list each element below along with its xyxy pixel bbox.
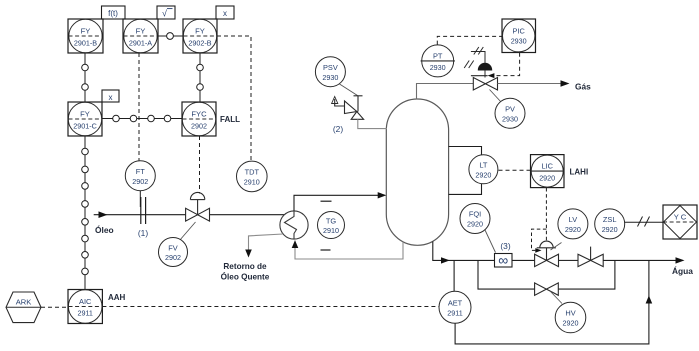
wire dashed PT to PIC xyxy=(437,36,502,44)
svg-text:PT: PT xyxy=(433,52,443,61)
wire FT2902 to orifice xyxy=(139,191,141,207)
tag line FQI xyxy=(485,230,496,253)
tag line PV xyxy=(490,90,502,103)
wire FY2901-A to FY2902-B with junction xyxy=(158,33,183,40)
water line from vessel xyxy=(433,242,495,261)
wire dashed LT to LIC xyxy=(499,169,531,171)
control valve LV 2920 xyxy=(535,241,559,267)
instrument FY 2901-C xyxy=(68,102,102,136)
flow arrow return down xyxy=(245,250,252,258)
svg-text:FY: FY xyxy=(195,27,205,36)
svg-text:PIC: PIC xyxy=(513,27,526,36)
instrument PIC 2930 xyxy=(502,19,536,53)
svg-text:LIC: LIC xyxy=(541,162,553,171)
wire dashed FYC2902 to FV2902 valve xyxy=(199,136,201,194)
svg-text:2902: 2902 xyxy=(165,253,181,262)
instrument HV 2920 xyxy=(555,302,586,333)
wire dashed FY2902-B to TDT2910 xyxy=(217,36,251,161)
pipe vessel bottoms to exchanger (gray) xyxy=(295,241,403,260)
svg-text:FQI: FQI xyxy=(469,210,481,219)
svg-text:x: x xyxy=(223,9,227,18)
instrument FY 2901-A xyxy=(123,19,158,53)
svg-text:√: √ xyxy=(162,9,167,19)
svg-text:2902-B: 2902-B xyxy=(188,39,211,48)
svg-text:PSV: PSV xyxy=(323,63,338,72)
wire data-link FY2902-B to FYC2902 xyxy=(197,53,204,102)
hot oil return line xyxy=(249,234,284,251)
instrument FV 2902 xyxy=(159,238,188,267)
pneumatic slashes lower xyxy=(464,61,474,69)
svg-text:ZSL: ZSL xyxy=(603,215,617,224)
svg-text:FY: FY xyxy=(81,27,91,36)
relief valve PSV xyxy=(335,96,364,120)
svg-text:2911: 2911 xyxy=(77,309,92,318)
svg-text:(1): (1) xyxy=(138,228,148,238)
arrow PIC signal xyxy=(488,73,495,78)
flow element (3) box xyxy=(495,252,513,268)
wire dashed ARK to AIC xyxy=(41,306,68,308)
tag line FV2902 xyxy=(180,222,196,241)
svg-text:FALL: FALL xyxy=(220,115,240,124)
svg-text:HV: HV xyxy=(565,309,575,318)
instrument LV 2920 xyxy=(558,209,588,239)
flow arrow oil xyxy=(99,211,108,218)
svg-text:2902: 2902 xyxy=(132,177,148,186)
wire data-link FY2901-C to FYC2902 xyxy=(102,115,182,122)
wire dashed AIC to AET xyxy=(102,306,439,308)
wire data-link FY2901-C to AIC2911 xyxy=(82,136,89,290)
pneumatic slashes upper xyxy=(474,47,484,55)
svg-text:LT: LT xyxy=(479,161,488,170)
svg-text:f(t): f(t) xyxy=(108,9,118,18)
svg-text:2902: 2902 xyxy=(191,122,207,131)
flow arrow into vessel xyxy=(378,192,387,198)
svg-text:Retorno de: Retorno de xyxy=(223,262,267,271)
instrument AET 2911 xyxy=(439,291,471,323)
svg-text:TDT: TDT xyxy=(245,168,260,177)
instrument LT 2920 xyxy=(469,155,498,184)
flow arrow Agua xyxy=(676,257,685,263)
function box x (row2) xyxy=(102,90,119,102)
svg-text:FV: FV xyxy=(168,244,178,253)
svg-text:FY: FY xyxy=(80,110,90,119)
wire dashed FY2901-A to FT2902 xyxy=(138,53,140,161)
svg-text:2920: 2920 xyxy=(539,174,555,183)
orifice plate (1) xyxy=(141,197,146,224)
instrument TDT 2910 xyxy=(237,161,268,192)
instrument PSV 2930 xyxy=(315,57,345,87)
svg-text:FYC: FYC xyxy=(191,110,207,119)
arrow LIC signal xyxy=(535,248,541,253)
wire dashed LIC to LV xyxy=(532,188,547,250)
svg-text:Óleo: Óleo xyxy=(95,224,114,235)
svg-text:(2): (2) xyxy=(333,124,343,134)
pipe to Agua arrow xyxy=(603,259,681,261)
svg-text:2920: 2920 xyxy=(475,171,491,180)
function box f(t) xyxy=(102,6,126,19)
svg-text:2910: 2910 xyxy=(244,178,260,187)
wire ZSL to YC xyxy=(625,221,663,223)
svg-text:Gás: Gás xyxy=(575,82,591,92)
control valve PV 2930 xyxy=(473,78,497,91)
svg-text:Y C: Y C xyxy=(674,213,687,222)
gas riser pipe xyxy=(417,84,474,100)
slashes on ZSL wire xyxy=(638,217,650,227)
sample loop AET xyxy=(454,260,649,344)
svg-text:2930: 2930 xyxy=(502,115,518,124)
oil feed line xyxy=(94,214,285,216)
tag line HV xyxy=(551,292,563,304)
instrument FT 2902 xyxy=(125,161,155,191)
svg-text:(3): (3) xyxy=(500,241,510,251)
vessel V-2900 xyxy=(386,99,448,245)
function box x xyxy=(216,6,234,19)
gas outlet pipe xyxy=(498,83,567,85)
svg-text:2920: 2920 xyxy=(563,319,579,328)
svg-text:Água: Água xyxy=(672,265,693,276)
actuator PV (solenoid dome) xyxy=(471,52,492,78)
svg-text:2920: 2920 xyxy=(565,225,581,234)
svg-text:AIC: AIC xyxy=(79,297,92,306)
tag line LV xyxy=(551,243,562,251)
pipe exchanger to vessel feed xyxy=(294,195,379,211)
function box sqrt xyxy=(157,6,175,19)
svg-text:2911: 2911 xyxy=(447,309,462,318)
svg-text:2901-C: 2901-C xyxy=(73,122,97,131)
svg-text:AAH: AAH xyxy=(108,293,126,302)
svg-text:FY: FY xyxy=(136,27,146,36)
svg-text:2930: 2930 xyxy=(511,37,527,46)
instrument PV 2930 xyxy=(495,98,525,128)
tag line PSV xyxy=(340,84,358,96)
instrument FY 2902-B xyxy=(183,19,217,53)
svg-text:LV: LV xyxy=(569,215,578,224)
manual valve water outlet xyxy=(559,247,604,267)
pipe to LV valve xyxy=(512,259,535,261)
control valve FV 2902 xyxy=(186,192,210,221)
tick above TG xyxy=(321,200,332,202)
svg-text:PV: PV xyxy=(505,105,515,114)
instrument AIC 2911 xyxy=(68,290,102,324)
svg-text:2901-A: 2901-A xyxy=(129,39,152,48)
svg-text:∞: ∞ xyxy=(498,252,508,268)
flow arrow up into exchanger xyxy=(292,240,299,248)
instrument LIC 2920 xyxy=(531,155,565,188)
instrument FQI 2920 xyxy=(460,204,490,234)
interlock ARK xyxy=(6,292,41,323)
wire dashed PIC to PV valve xyxy=(492,53,520,76)
svg-text:AET: AET xyxy=(448,299,463,308)
instrument PT 2930 xyxy=(421,45,455,77)
svg-text:LAHI: LAHI xyxy=(570,168,589,177)
svg-text:2920: 2920 xyxy=(467,220,483,229)
tick below TG xyxy=(321,249,331,251)
pipe PSV to vessel (gray) xyxy=(358,119,387,128)
flow arrow up sample return xyxy=(646,296,653,304)
svg-text:ARK: ARK xyxy=(16,298,32,307)
flow arrow gas xyxy=(561,80,570,87)
instrument ZSL 2920 xyxy=(595,209,625,239)
svg-text:FT: FT xyxy=(136,167,146,176)
svg-text:2930: 2930 xyxy=(322,73,338,82)
svg-text:2920: 2920 xyxy=(602,225,618,234)
wire data-link FY2901-B to FY2901-C xyxy=(82,53,89,102)
svg-text:2930: 2930 xyxy=(430,63,446,72)
svg-text:2901-B: 2901-B xyxy=(74,39,97,48)
instrument FYC 2902 xyxy=(182,102,216,136)
svg-text:2910: 2910 xyxy=(323,226,339,235)
flow arrow water xyxy=(441,257,450,263)
instrument FY 2901-B xyxy=(68,19,103,53)
vent arrow PSV xyxy=(332,97,338,104)
level taps LT xyxy=(449,147,482,195)
logic YC xyxy=(663,205,697,239)
svg-text:Óleo Quente: Óleo Quente xyxy=(221,271,270,282)
svg-text:TG: TG xyxy=(326,217,337,226)
heat exchanger E-2910 xyxy=(280,211,308,239)
svg-text:x: x xyxy=(109,93,113,102)
bypass line xyxy=(478,260,615,289)
bypass valve HV xyxy=(535,283,559,295)
instrument TG 2910 xyxy=(318,212,345,239)
